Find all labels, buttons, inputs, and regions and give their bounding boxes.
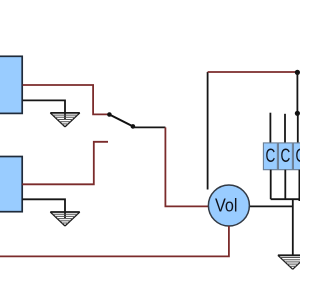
capacitor C1 body bbox=[263, 143, 277, 170]
node junction top-right bbox=[295, 70, 300, 75]
wire B2 positive stub to unused throw (red) bbox=[22, 142, 108, 185]
capacitor C2 body bbox=[278, 143, 292, 170]
svg-text:C: C bbox=[281, 145, 291, 167]
wire switch common stub (black) bbox=[133, 126, 166, 128]
wire junction drop (black) bbox=[296, 72, 298, 113]
ground GND2 bbox=[50, 212, 80, 226]
capacitor C3 top lead bbox=[297, 113, 299, 143]
voltmeter U1 body bbox=[208, 185, 249, 226]
wire capacitor bottom bus bbox=[271, 198, 300, 200]
node junction capacitor C3 top bbox=[295, 111, 300, 116]
ground GND1 bbox=[50, 113, 80, 127]
wire B1 positive to switch throw (red) bbox=[23, 85, 108, 114]
switch SW1 common dot bbox=[131, 124, 136, 129]
svg-text:Vol: Vol bbox=[215, 194, 238, 215]
capacitor C1 top lead bbox=[269, 113, 271, 143]
wire voltmeter right to ground node bbox=[249, 205, 292, 207]
wire B2 negative to ground (black) bbox=[22, 199, 65, 218]
capacitor C1 bottom lead bbox=[270, 170, 272, 200]
svg-text:C: C bbox=[266, 145, 276, 167]
svg-text:C: C bbox=[296, 145, 301, 167]
capacitor C3 bottom lead bbox=[298, 170, 300, 201]
capacitor C3 body bbox=[293, 143, 307, 170]
switch SW1 pole dot bbox=[107, 112, 112, 117]
wire switch to voltmeter (red) bbox=[165, 127, 208, 206]
switch SW1 lever bbox=[109, 115, 132, 127]
wire top rail (red) bbox=[208, 71, 298, 73]
wire voltmeter bottom return (red) bbox=[0, 226, 229, 256]
capacitor C2 top lead bbox=[284, 114, 286, 143]
capacitor C2 bottom lead bbox=[284, 170, 286, 200]
wire B1 negative to ground (black) bbox=[23, 100, 65, 119]
wire bus to ground (black vertical) bbox=[292, 199, 294, 255]
ground GND3 (bottom right) bbox=[278, 255, 308, 269]
battery B2 (lower-left power supply box) bbox=[0, 157, 22, 212]
wire voltmeter top branch (black vertical) bbox=[207, 72, 209, 190]
battery B1 (top-left power supply box) bbox=[0, 56, 22, 113]
